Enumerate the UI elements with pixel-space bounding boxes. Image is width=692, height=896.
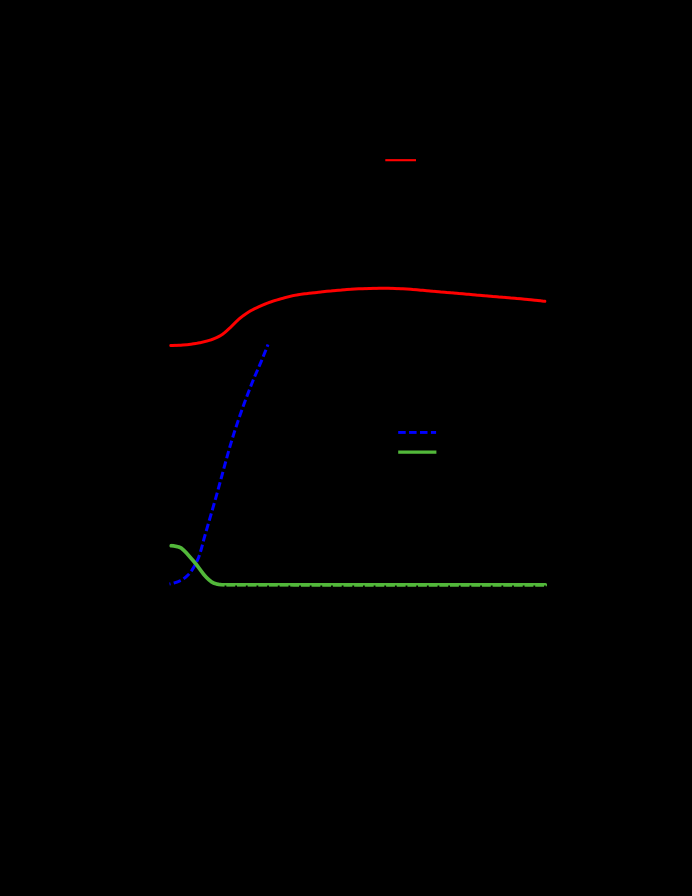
black dashed reference line over green [214, 585, 547, 587]
red curve [171, 288, 545, 345]
red legend sample [385, 159, 416, 161]
blue dashed legend sample [398, 431, 436, 434]
green curve [171, 546, 545, 585]
blue dashed curve [170, 345, 269, 585]
green legend sample [398, 450, 436, 453]
